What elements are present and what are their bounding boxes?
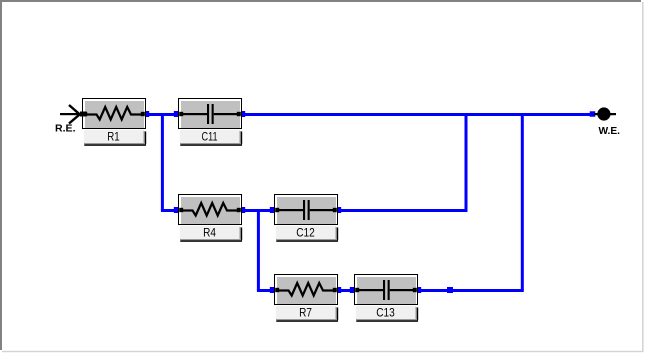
wire C11 out to W.E. (row1) [241,113,591,116]
svg-text:C13: C13 [376,306,395,320]
svg-text:R7: R7 [299,306,312,320]
R.E. input terminal [60,105,87,124]
wire row1 to row3 right (V3) [521,114,524,290]
panel frame top edge [0,0,641,2]
panel frame left edge [0,0,2,350]
node C11 left [174,111,180,117]
node C12 right [335,207,341,213]
svg-text:C11: C11 [202,130,218,144]
node junction row3 [447,287,453,293]
node R1 right [143,111,149,117]
capacitor C12 [274,194,338,242]
wire R4 out to C12 in (row2) [241,209,275,212]
resistor R7 [274,274,338,322]
W.E. output terminal [594,107,616,120]
panel frame right edge [642,2,644,352]
node W.E. input [590,111,596,117]
wire C13 out to V3 (row3) [417,289,524,292]
wire C12 out to V2 (row2) [337,209,468,212]
panel frame bottom edge [2,351,644,352]
node R4 right [239,207,245,213]
wire row1 to C12 out (V2) [465,114,468,210]
capacitor C13 [354,274,418,322]
node C13 right [415,287,421,293]
svg-text:R.E.: R.E. [55,124,76,135]
wire V1 to R4 in (row2) [161,209,179,212]
svg-text:R1: R1 [107,130,120,144]
svg-text:R4: R4 [203,226,216,240]
wire R1 out to C11 in (row1) [146,113,179,116]
node R4 left [174,207,180,213]
node C12 left [270,207,276,213]
svg-text:W.E.: W.E. [599,126,621,137]
node C13 left [350,287,356,293]
wire Va to R7 in (row3) [257,289,275,292]
node C11 right [239,111,245,117]
wire junction drop to R4 (V1) [161,114,164,210]
resistor R1 [82,98,146,146]
svg-text:C12: C12 [296,226,315,240]
resistor R4 [178,194,242,242]
node R7 left [270,287,276,293]
wire R7 out to C13 in (row3) [337,289,355,292]
wire junction drop to R7 (Va) [257,210,260,290]
node R7 right [335,287,341,293]
capacitor C11 [178,98,242,146]
